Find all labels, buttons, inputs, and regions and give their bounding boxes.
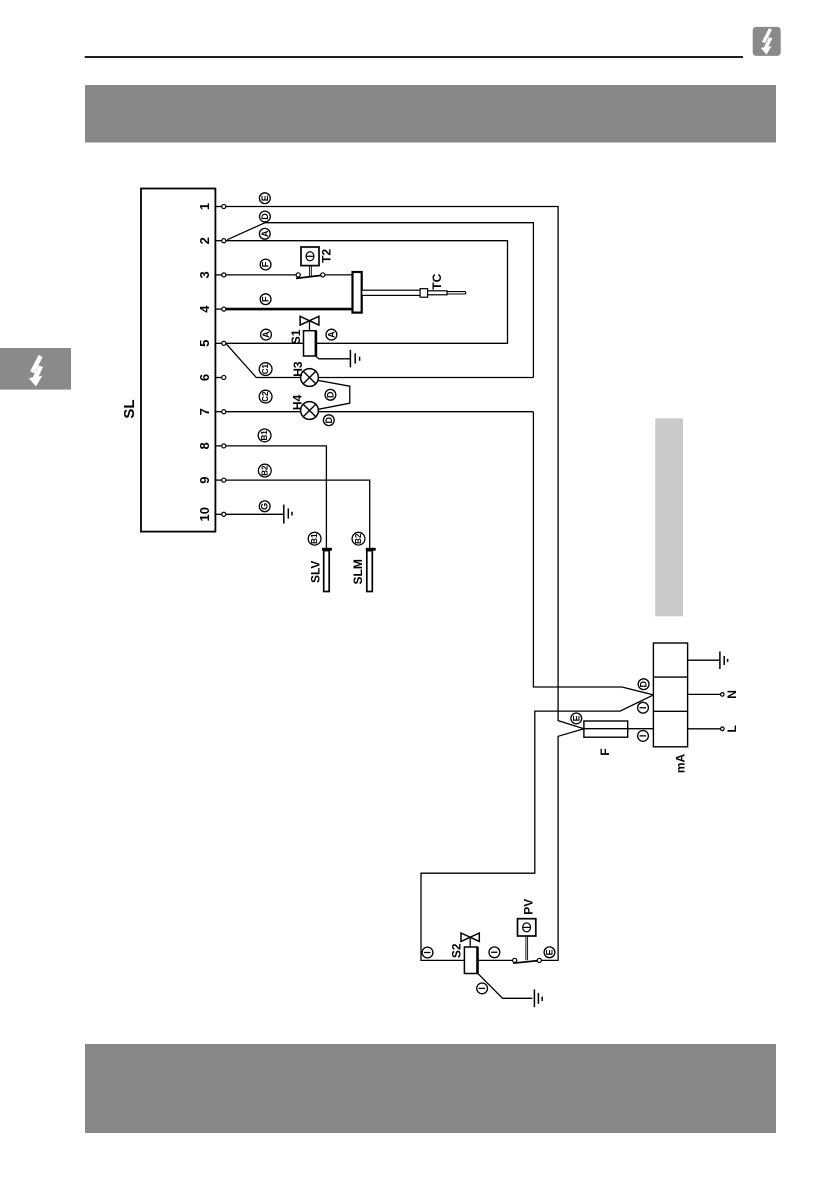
svg-text:D: D: [324, 416, 334, 423]
ground at S2: [533, 989, 535, 1007]
svg-text:TC: TC: [430, 273, 444, 289]
terminal 3 pin: [215, 274, 222, 276]
T2 switch blade: [296, 275, 321, 278]
svg-text:A: A: [260, 230, 270, 237]
svg-text:PV: PV: [521, 899, 535, 915]
svg-text:8: 8: [197, 442, 212, 449]
wire switch to flange: [325, 274, 353, 276]
header rule: [85, 56, 743, 58]
node I label at power block: [638, 702, 649, 713]
wire net B1: terminal 8 to electrode: [226, 446, 327, 548]
svg-text:4: 4: [197, 305, 212, 313]
svg-text:B1: B1: [260, 430, 269, 441]
ground at S1: [349, 350, 351, 368]
svg-text:A: A: [326, 331, 336, 338]
node I label left of S2: [422, 947, 433, 958]
wire H3 to D rail: [318, 377, 533, 379]
node D label: [260, 211, 271, 222]
wire net F: terminal 3 to switch: [226, 274, 296, 276]
node D label on jumper: [325, 389, 336, 400]
node B2 label: [258, 464, 271, 477]
svg-text:G: G: [260, 503, 270, 510]
node A label line 5 left: [261, 329, 272, 340]
terminal 9 pin: [215, 479, 222, 481]
terminal 10 pin: [215, 513, 222, 515]
svg-text:mA: mA: [673, 754, 687, 774]
terminal 2 pin: [215, 240, 222, 242]
thermostat T2 box: [301, 247, 319, 266]
node F label line 4: [260, 294, 271, 305]
terminal 7 pin: [215, 411, 222, 413]
wire H3 to H4 jumper: [318, 380, 350, 409]
wire net E: fuse down to PV switch: [541, 729, 584, 961]
electrode SLV: [322, 548, 332, 551]
PV switch blade: [513, 961, 538, 964]
PV capillary: [525, 936, 527, 960]
svg-text:F: F: [598, 748, 612, 755]
T2 capillary: [309, 266, 311, 277]
svg-text:H3: H3: [291, 361, 305, 377]
node B2 label at electrode: [352, 532, 365, 545]
svg-text:10: 10: [197, 507, 212, 521]
wire net D: terminal 2 diagonal to D rail: [227, 223, 265, 240]
left margin lightning tab: [0, 348, 71, 390]
svg-text:I: I: [423, 951, 433, 954]
control box SL: [141, 189, 215, 532]
svg-text:S1: S1: [289, 329, 303, 344]
thermocouple flange: [353, 272, 362, 313]
terminal 5 pin: [215, 342, 222, 344]
node I label right of S2: [489, 947, 500, 958]
power block earth wire: [688, 659, 720, 661]
wire net C1: terminal 5 diagonal to lamp line: [227, 344, 301, 377]
svg-text:T2: T2: [319, 248, 333, 262]
node I label at S2 drain: [477, 983, 488, 994]
svg-text:I: I: [638, 735, 648, 738]
svg-text:I: I: [638, 706, 648, 709]
svg-text:I: I: [489, 951, 499, 954]
svg-text:B2: B2: [354, 533, 363, 544]
node C1 label: [259, 363, 272, 376]
node E label right of PV switch: [544, 947, 555, 958]
thermostat PV box: [518, 919, 536, 936]
svg-text:N: N: [725, 690, 739, 699]
svg-text:6: 6: [197, 374, 212, 381]
svg-text:S2: S2: [450, 943, 464, 958]
terminal 6 pin: [215, 377, 222, 379]
svg-text:5: 5: [197, 340, 212, 347]
node E label at fuse: [571, 713, 582, 724]
wire D rail lower segment: [533, 412, 653, 695]
node F label line 3: [260, 259, 271, 270]
svg-text:D: D: [325, 391, 335, 398]
svg-text:I: I: [477, 987, 487, 990]
svg-text:SL: SL: [121, 399, 138, 418]
node A label line 5 right: [326, 329, 337, 340]
svg-text:H4: H4: [291, 394, 305, 410]
gas valve S1: [300, 316, 319, 325]
svg-text:3: 3: [197, 271, 212, 278]
thermocouple TC probe: [362, 290, 420, 295]
terminal 8 pin: [215, 445, 222, 447]
wire H4 to D rail: [318, 411, 533, 413]
svg-text:F: F: [261, 296, 271, 302]
wire: power block to S2 loop: [421, 695, 653, 961]
svg-text:9: 9: [197, 476, 212, 483]
ground at terminal 10: [283, 505, 285, 524]
svg-text:C1: C1: [261, 363, 270, 374]
lamp H3: [301, 369, 319, 387]
ground at power block: [719, 652, 721, 670]
svg-text:A: A: [261, 331, 271, 338]
node E label on line 1: [259, 193, 270, 204]
wire net E: terminal 1 to fuse: [226, 207, 584, 729]
svg-text:D: D: [639, 680, 649, 687]
pilot valve S2: [461, 933, 479, 942]
svg-text:E: E: [571, 715, 581, 721]
svg-text:7: 7: [197, 408, 212, 415]
S1 drain wire: [316, 356, 351, 359]
svg-text:B1: B1: [310, 533, 319, 544]
svg-text:SLV: SLV: [308, 561, 322, 583]
wire net A: terminal 2 to vertical to line 5: [226, 241, 508, 344]
node B1 label at electrode: [308, 532, 321, 545]
terminal N: [688, 693, 721, 695]
top gray banner: [85, 85, 776, 143]
node G label: [259, 501, 270, 512]
fuse F: [584, 728, 654, 730]
svg-text:SLM: SLM: [351, 559, 365, 584]
wire net F: terminal 4 thick to flange: [226, 308, 353, 311]
node B1 label: [258, 429, 271, 442]
terminal 1 pin: [215, 206, 222, 208]
svg-text:F: F: [261, 261, 271, 267]
T2 switch contacts: [296, 273, 300, 277]
svg-text:1: 1: [197, 203, 212, 210]
power block mA: [653, 643, 687, 747]
node D label line 7: [323, 415, 334, 426]
svg-text:E: E: [545, 949, 555, 955]
node I label below fuse: [638, 731, 649, 742]
wire net C2: terminal 7 line: [226, 411, 301, 413]
electrode SLM: [366, 548, 376, 551]
node C2 label: [259, 390, 272, 403]
gray sidebar strip: [655, 418, 683, 616]
svg-text:E: E: [260, 195, 270, 201]
svg-text:L: L: [725, 725, 739, 732]
svg-text:D: D: [260, 213, 270, 220]
svg-text:C2: C2: [261, 391, 270, 402]
terminal 4 pin: [215, 308, 222, 310]
PV switch contacts: [513, 958, 517, 962]
svg-text:B2: B2: [260, 465, 269, 476]
lamp H4: [301, 402, 319, 420]
wire D rail horizontal and vertical to power block: [265, 223, 533, 378]
wire net G: terminal 10 to ground: [226, 513, 284, 515]
S2 drain wire to ground: [478, 973, 533, 998]
bottom gray banner: [85, 1044, 776, 1133]
svg-text:2: 2: [197, 237, 212, 244]
wire S2 to PV switch: [477, 959, 512, 961]
node D label at power block: [638, 679, 649, 690]
node A label line 2: [259, 228, 270, 239]
wire net B2: terminal 9 to electrode: [226, 480, 370, 548]
terminal L: [688, 728, 721, 730]
